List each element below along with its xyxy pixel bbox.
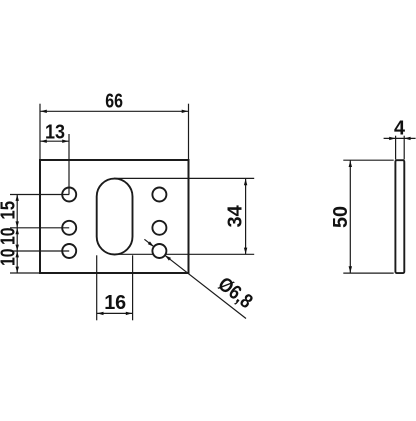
dim 34: bottom extension (slot bottom tangent, broken at hole R3) xyxy=(116,253,154,255)
hole R1 xyxy=(152,188,166,202)
plate front view outline xyxy=(40,160,189,273)
arrowhead dim66 left xyxy=(40,110,46,113)
dim 13: dimension line xyxy=(40,140,69,142)
arrowhead dim13 left xyxy=(40,140,46,143)
dim 66: extension lines xyxy=(39,104,41,160)
dim 50: bottom extension xyxy=(343,272,393,274)
dim 34: dimension line xyxy=(245,178,247,254)
dim 34: top extension (slot top tangent) xyxy=(114,177,254,179)
slot (obround cutout) xyxy=(97,179,133,255)
hole L1 xyxy=(62,188,76,202)
arrowhead dim10 bottom (down) xyxy=(16,267,19,273)
svg-text:34: 34 xyxy=(225,204,247,227)
svg-text:4: 4 xyxy=(394,117,406,139)
svg-text:10: 10 xyxy=(0,249,20,267)
side view plate section xyxy=(395,160,404,273)
svg-text:10: 10 xyxy=(0,228,20,246)
svg-text:15: 15 xyxy=(0,201,20,220)
dim 4: dimension line xyxy=(384,137,416,139)
dim 50: dimension line xyxy=(349,160,351,273)
arrowhead leader lower (pointing up-left at hole) xyxy=(165,255,171,260)
arrowhead dim16 right xyxy=(126,312,132,315)
dim 15/10/10: leader row3 xyxy=(10,250,69,252)
svg-text:66: 66 xyxy=(105,90,123,112)
arrowhead dim34 bottom (down) xyxy=(244,248,247,254)
arrowhead leader upper (pointing down-right at hole) xyxy=(148,241,154,246)
dim 15/10/10: dimension line xyxy=(16,195,18,274)
dim 50: top extension xyxy=(343,159,393,161)
arrowhead pair at row3 xyxy=(16,245,19,251)
hole R2 xyxy=(152,221,166,235)
dim 15/10/10: leader row1 xyxy=(10,194,69,196)
dim 15/10/10: leader row2 xyxy=(10,227,69,229)
svg-text:13: 13 xyxy=(45,121,65,143)
arrowhead dim16 left xyxy=(97,312,103,315)
svg-text:16: 16 xyxy=(104,292,126,314)
dim 15/10/10: bottom edge extension xyxy=(10,272,40,274)
dim 16: left extension line xyxy=(96,255,98,320)
arrowhead dim50 top (up) xyxy=(349,161,352,167)
dim 66: dimension line xyxy=(40,110,189,112)
hole L3 xyxy=(62,244,76,258)
arrowhead dim50 bottom (down) xyxy=(349,266,352,272)
hole L2 xyxy=(62,221,76,235)
arrowhead dim66 right xyxy=(182,110,188,113)
leader line diameter 6,8 xyxy=(165,255,246,318)
dim 4: extension lines xyxy=(395,136,397,160)
dim 13: extension line to hole L1 xyxy=(68,134,70,195)
arrowhead dim4 right (pointing left) xyxy=(404,137,410,140)
dim 16: right extension line xyxy=(132,255,134,320)
dim 16: dimension line xyxy=(97,312,133,314)
hole R3 xyxy=(152,244,166,258)
arrowhead dim13 right xyxy=(62,140,68,143)
arrowhead dim4 left (pointing right) xyxy=(389,137,395,140)
arrowhead dim15 top (up) xyxy=(16,195,19,201)
arrowhead dim34 top (up) xyxy=(244,179,247,185)
svg-text:50: 50 xyxy=(330,206,352,228)
arrowhead pair at row2 xyxy=(16,221,19,227)
